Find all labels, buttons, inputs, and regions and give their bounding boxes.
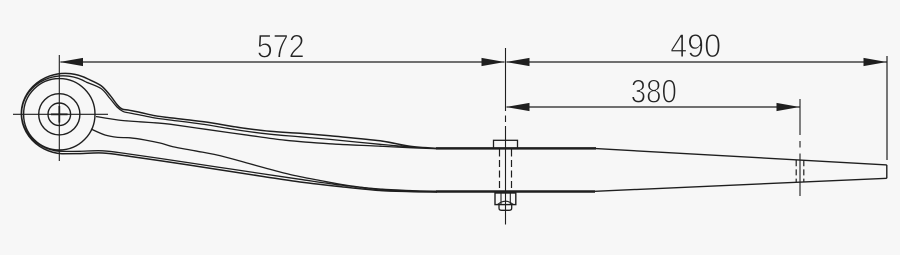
center line of bolt x=505.5: [505, 48, 507, 225]
hidden hole lines at x=800: [796, 160, 804, 182]
svg-text:572: 572: [257, 28, 305, 65]
eye center cross mark: [51, 106, 68, 123]
center line at hole x=800: [799, 99, 801, 196]
dimension 380: [507, 106, 800, 108]
seat flat bottom (thick): [436, 190, 595, 193]
leaf inner bottom line: [91, 129, 437, 192]
arrowhead 572 right: [482, 58, 505, 66]
dimension 490: [507, 61, 887, 63]
bolt tip: [499, 205, 512, 211]
extension line at right tip x=887: [886, 56, 888, 160]
bushing circle inner: [48, 103, 71, 126]
arrowhead 572 left: [60, 58, 84, 66]
taper top line: [596, 149, 887, 165]
bolt shank hidden lines: [500, 150, 512, 192]
eye vertical center line: [58, 55, 60, 161]
taper bottom line: [595, 178, 887, 191]
leaf outline: top edge over eye wrap to bottom edge (double line): [21, 73, 437, 192]
seat flat top (thick): [436, 147, 596, 150]
outline companion line top: [86, 82, 437, 149]
arrowhead 490 left: [506, 58, 529, 66]
nut facet lines: [500, 193, 502, 205]
center bolt head: [494, 140, 518, 148]
svg-text:490: 490: [670, 27, 721, 64]
nut: [495, 193, 516, 205]
outline companion wrap arc: [22, 76, 86, 152]
outline companion line bottom: [64, 151, 437, 192]
eye horizontal center line: [13, 113, 108, 115]
bushing circle middle: [39, 94, 80, 135]
leaf inner top line: [96, 117, 437, 149]
svg-text:380: 380: [631, 73, 677, 110]
arrowhead 490 right: [864, 58, 887, 66]
arrowhead 380 left: [506, 103, 529, 111]
nut chamfer arc: [498, 201, 514, 204]
arrowhead 380 right: [777, 103, 800, 111]
bushing circle outer: [24, 79, 95, 150]
tip vertical edge: [886, 165, 888, 178]
dimension 572: [61, 61, 505, 63]
